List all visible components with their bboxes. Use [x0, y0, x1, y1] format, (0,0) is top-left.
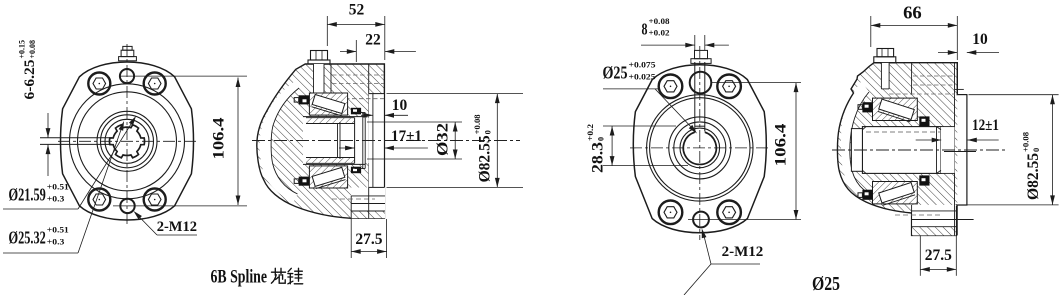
- dim 106.4 line view1: [237, 78, 239, 206]
- view4 upper left seal (black): [862, 102, 872, 112]
- view3 top fitting nut: [695, 50, 708, 58]
- view2 bolt: [311, 51, 328, 61]
- view1 body outline: [61, 62, 194, 220]
- view1 bottom port hole (M12): [120, 199, 134, 213]
- view3 M12 plug hole: [717, 75, 741, 99]
- view2 centerline: [252, 140, 520, 142]
- svg-text:+0.08: +0.08: [1020, 132, 1030, 152]
- svg-text:+0.02: +0.02: [649, 28, 670, 38]
- dim O82.55 +0.08/0 view2: [387, 93, 524, 95]
- svg-text:+0.08: +0.08: [28, 40, 37, 59]
- view1 top port hole: [120, 69, 134, 83]
- dim 66: [870, 16, 872, 47]
- svg-text:12±1: 12±1: [972, 117, 999, 134]
- svg-text:28.3: 28.3: [590, 142, 607, 173]
- view3 bottom port hole (M12): [693, 212, 709, 228]
- view4 centerline: [832, 149, 1008, 151]
- view2 chamber inner wall line: [271, 88, 299, 194]
- dim 27.5 view2: [350, 219, 352, 258]
- view2 flange bolt hole hidden lines: [332, 74, 384, 76]
- dim 17±1: [339, 147, 355, 149]
- svg-text:Ø25: Ø25: [812, 273, 840, 295]
- svg-text:27.5: 27.5: [925, 247, 952, 264]
- view1 M12 plug hole: [88, 73, 110, 95]
- view4 shaft end chamfer: [937, 127, 942, 130]
- svg-text:+0.3: +0.3: [47, 237, 65, 247]
- svg-text:2-M12: 2-M12: [722, 244, 764, 260]
- view4 O25 shaft: [862, 127, 941, 174]
- view2 bolt shank: [314, 64, 325, 94]
- label O25 +0.075/+0.025: [603, 59, 656, 82]
- caption CJK hua (drawn strokes): [271, 268, 285, 283]
- view4 flange bolt hole hidden lines: [913, 75, 955, 77]
- view4 plate step lines: [955, 88, 964, 90]
- svg-text:+0.025: +0.025: [629, 72, 656, 82]
- svg-text:+0.51: +0.51: [47, 224, 69, 234]
- view2 plate bore white gap: [365, 118, 369, 163]
- view4 bolt hole hidden line: [889, 93, 955, 95]
- svg-text:Ø82.55: Ø82.55: [477, 135, 494, 182]
- stray leader line bottom: [684, 264, 711, 295]
- view1 6B spline bore profile: [109, 125, 144, 158]
- view2 splined shaft hub: [303, 117, 365, 165]
- dim 52: [326, 16, 328, 46]
- view4 shaft keyway hidden line: [866, 131, 940, 133]
- view2 bottom ear white band: [351, 187, 385, 211]
- label O21.59 +0.51/+0.3: [9, 181, 69, 204]
- view2 front seal upper (black): [351, 108, 361, 115]
- svg-text:Ø82.55: Ø82.55: [1025, 153, 1042, 200]
- view4 body outline: [837, 63, 966, 236]
- view2 lower tapered roller bearing: [309, 166, 347, 188]
- svg-text:0: 0: [1031, 148, 1041, 152]
- svg-text:106.4: 106.4: [211, 117, 228, 159]
- svg-text:Ø25: Ø25: [603, 63, 628, 83]
- view3 ring r26: [674, 122, 726, 174]
- svg-text:52: 52: [349, 2, 365, 19]
- view2 front seal lower (black): [351, 167, 361, 174]
- view3 boss circle: [647, 95, 753, 201]
- view4 lower tapered roller bearing: [873, 182, 918, 204]
- svg-text:Ø32: Ø32: [435, 123, 452, 156]
- svg-text:8: 8: [642, 20, 648, 39]
- view4 bottom ear left edge: [911, 205, 913, 236]
- view4 plate inner line: [954, 63, 956, 236]
- svg-text:27.5: 27.5: [355, 231, 382, 248]
- label O25.32 +0.51/+0.3: [9, 224, 69, 247]
- view2 cover/body joint stub: [330, 64, 332, 94]
- svg-text:+0.08: +0.08: [649, 16, 670, 26]
- svg-text:+0.51: +0.51: [47, 181, 69, 191]
- dim 27.5 view4: [919, 236, 921, 276]
- dim O32: [367, 121, 462, 123]
- view4 plate bore white gap: [941, 127, 955, 174]
- view4 lower right seal (black): [919, 175, 929, 185]
- svg-text:0: 0: [482, 130, 492, 134]
- view4 bottom ear white band: [912, 205, 957, 227]
- dim 8 +0.08/+0.02 keyway: [694, 35, 696, 50]
- view2 spline bore end: [354, 118, 356, 164]
- svg-text:106.4: 106.4: [773, 123, 790, 166]
- view3 bore land circle: [680, 128, 720, 168]
- dim 6-6.25 text: [18, 40, 38, 100]
- svg-text:6B Spline: 6B Spline: [211, 268, 268, 288]
- svg-text:Ø21.59: Ø21.59: [9, 185, 46, 205]
- view2 body outline: [257, 64, 385, 218]
- view3 M12 plug hole: [659, 75, 683, 99]
- dim 10 view4: [938, 52, 957, 54]
- svg-text:2-M12: 2-M12: [157, 219, 197, 235]
- view4 cover/body joint stub: [911, 63, 913, 95]
- view2 pilot boss lines: [372, 94, 374, 188]
- view1 top relief plug fitting: [119, 57, 137, 61]
- view1 inner ring r22: [105, 119, 149, 163]
- view2 upper tapered roller bearing: [309, 93, 347, 115]
- view2 bolt hole hidden line: [324, 98, 384, 100]
- dim 10 view2: [361, 114, 373, 116]
- view2 bottom ear rim hatch: [351, 211, 385, 218]
- view1 M12 plug hole: [88, 189, 110, 211]
- svg-text:22: 22: [365, 32, 381, 49]
- view2 gear face double line: [362, 113, 364, 169]
- view1 vertical centerline: [126, 44, 128, 226]
- view2 shaft spline wall hatch: [306, 118, 355, 124]
- view3 top port hole: [690, 72, 712, 94]
- svg-text:17±1: 17±1: [391, 128, 422, 145]
- dim 6-6.25 lines: [47, 113, 49, 138]
- view2 upper shaft seal (black): [299, 95, 310, 104]
- view2 bottom ear left edge: [350, 196, 352, 218]
- svg-text:Ø25.32: Ø25.32: [9, 228, 46, 248]
- view1 horizontal centerline: [58, 140, 197, 142]
- view2 lower shaft seal (black): [299, 177, 310, 186]
- leader O25.32: [3, 252, 78, 254]
- view4 chamber inner wall line: [850, 92, 869, 193]
- leader O21.59: [3, 208, 78, 210]
- view4 lower left seal (black): [862, 190, 872, 200]
- leader O25 bore: [603, 88, 658, 90]
- dim O82.55 +0.08/0 view4: [969, 94, 1059, 96]
- svg-text:10: 10: [972, 31, 988, 48]
- dim 12±1: [916, 139, 942, 141]
- view4 upper right seal (black): [919, 116, 929, 126]
- view3 vertical centerline: [699, 46, 701, 240]
- view1 inner ring r26.5: [101, 115, 154, 168]
- svg-text:+0.2: +0.2: [586, 124, 595, 141]
- view1 top port centerline: [119, 75, 247, 77]
- dim 28.3 +0.2/0: [603, 125, 676, 127]
- view1 inner ring r30: [97, 111, 157, 171]
- view3 pilot circle O82.55: [650, 98, 750, 198]
- view4 bottom port hidden centerline: [895, 214, 940, 216]
- view3 horizontal centerline: [630, 147, 770, 149]
- view4 bolt shank: [881, 63, 889, 89]
- view2 bottom ear lines: [351, 195, 385, 197]
- view2 bottom port hidden centerline: [332, 198, 375, 200]
- view3 ring r31: [669, 117, 731, 179]
- view3 O25 bore with keyway: [683, 132, 716, 164]
- view4 pilot boss white strip: [957, 95, 967, 205]
- svg-text:+0.15: +0.15: [18, 40, 27, 59]
- view4 body silhouette hatched: [837, 63, 966, 236]
- view2 bore mouth chamfer: [337, 124, 339, 158]
- svg-text:6-6.25: 6-6.25: [22, 60, 38, 100]
- svg-text:66: 66: [903, 3, 922, 23]
- view2 body silhouette hatched: [257, 64, 385, 218]
- view4 shaft left chamfer: [862, 127, 866, 130]
- view4 gear chamber white pocket: [841, 81, 869, 201]
- view2 pilot boss white strip: [369, 94, 385, 188]
- view3 keyway slot: [694, 62, 696, 132]
- view4 upper tapered roller bearing: [873, 98, 918, 120]
- view4 bottom ear rim hatch: [912, 227, 957, 236]
- svg-text:+0.075: +0.075: [629, 59, 656, 69]
- view3 M12 plug hole: [717, 201, 741, 225]
- view4 bottom ear lines: [912, 210, 957, 212]
- svg-text:+0.08: +0.08: [472, 114, 482, 134]
- dim 106.4 line view3: [795, 83, 797, 220]
- svg-text:+0.3: +0.3: [47, 194, 65, 204]
- view4 shaft left step: [851, 129, 862, 172]
- view1 boss circle: [70, 84, 185, 199]
- svg-text:0: 0: [596, 137, 605, 141]
- view1 M12 plug hole: [144, 73, 166, 95]
- view2 plate face line: [368, 64, 370, 218]
- view3 body outline: [633, 65, 766, 233]
- view1 spline groove measuring lines (6-6.25): [40, 137, 112, 139]
- view3 M12 plug hole: [659, 201, 683, 225]
- svg-text:10: 10: [392, 97, 408, 114]
- view1 bottom port centerline: [113, 205, 247, 207]
- view1 M12 plug hole: [144, 189, 166, 211]
- caption CJK jian (drawn strokes): [288, 268, 303, 284]
- view1 pilot circle O82.55: [78, 92, 177, 191]
- view2 gear chamber white pocket: [260, 82, 300, 202]
- dim 22: [355, 40, 357, 62]
- view4 bolt: [877, 49, 894, 57]
